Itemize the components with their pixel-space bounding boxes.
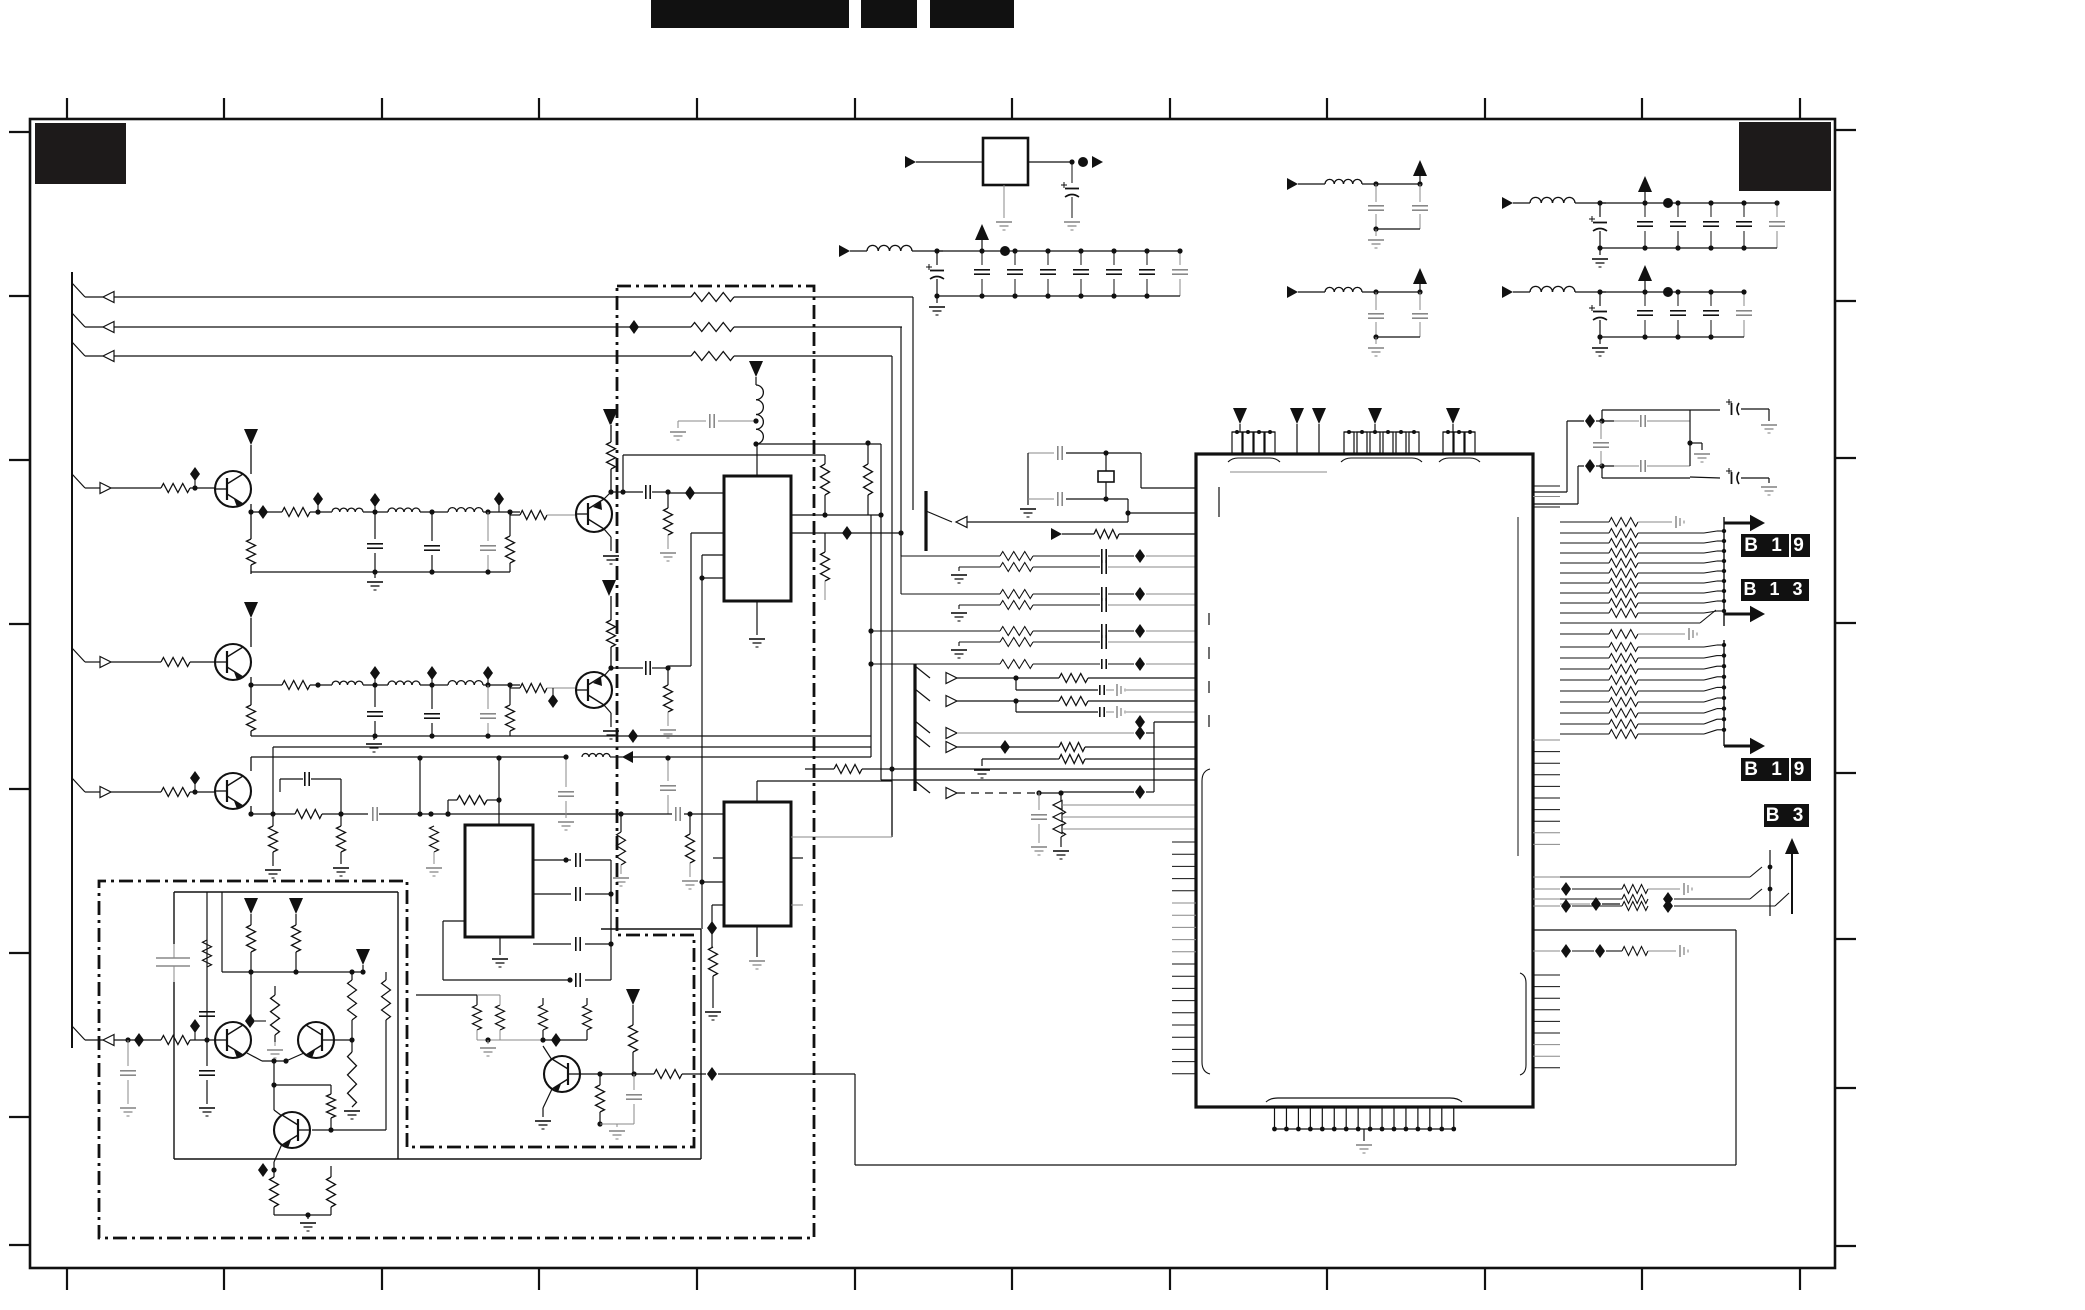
capacitor C1c to rail	[480, 509, 496, 572]
capacitor C2 out	[646, 485, 668, 499]
U1 right pins	[1533, 486, 1560, 1068]
resistor shunt stage3	[333, 811, 349, 876]
resistor base Q6	[161, 1036, 215, 1045]
diamond Q1 out	[258, 505, 268, 519]
U1 internal marks	[1202, 472, 1526, 1075]
resistor Q8 right	[327, 1130, 336, 1215]
capacitor IC2 input	[618, 807, 724, 821]
resistor divider pair A	[416, 995, 543, 1056]
bus wire B	[753, 441, 881, 780]
ground regulator	[996, 185, 1012, 230]
resistor to ground stage1 out	[660, 489, 676, 561]
LC filter B	[1287, 268, 1428, 356]
resistor Q8 feedback	[271, 1082, 335, 1132]
resistor series stage3	[295, 810, 368, 819]
grounded wire y759	[974, 759, 1056, 778]
op-amp IC0	[465, 825, 533, 937]
capacitor row 690	[1016, 678, 1196, 696]
output line G (row 2)	[72, 313, 691, 333]
redacted block top-right	[1739, 122, 1831, 191]
supply Q4	[602, 580, 616, 620]
svg-text:B 1: B 1	[1744, 535, 1786, 556]
stub IC2 right 2	[791, 904, 803, 906]
supply to coil IC1	[749, 361, 763, 385]
diamond node Q1 base	[190, 467, 200, 491]
wire y972	[222, 969, 366, 974]
wire pair B top	[543, 998, 587, 1005]
ground Q2 collector	[603, 529, 619, 564]
inner box right edge	[601, 929, 701, 1159]
wire row y899	[1533, 887, 1772, 906]
inductor L1a	[332, 508, 388, 512]
signal pair row 556	[901, 549, 1196, 583]
U1 left pins	[1172, 842, 1196, 1074]
capacitor feedback stage3	[280, 772, 341, 814]
wire row792 join	[1061, 785, 1154, 799]
resistor vert above out1	[821, 455, 830, 515]
regulator output	[1028, 156, 1103, 168]
signal row 664	[868, 628, 1196, 671]
resistor R-line row1	[691, 293, 913, 302]
resistor to Q2 base	[510, 511, 576, 520]
input bus wire	[71, 272, 73, 1048]
sync IC2	[724, 802, 791, 926]
resistor divider pair B	[539, 1005, 592, 1047]
input arrow stage 4	[72, 1026, 161, 1046]
U1 bottom pins + ground	[1266, 1098, 1462, 1153]
ground between Q6-Q7	[267, 1042, 283, 1058]
resistor Q4 emitter	[607, 620, 616, 668]
resistor bundle 2	[1560, 628, 1726, 746]
resistor Q9 load	[596, 1074, 605, 1127]
resistor below supply 2	[292, 925, 301, 972]
IC1 output row 2	[791, 526, 902, 540]
Q5 collector wire	[251, 757, 566, 771]
transistor Q6	[215, 1022, 251, 1058]
filled left arrow mid	[622, 751, 871, 763]
capacitor C2b to rail	[424, 666, 440, 736]
wire tap x420	[417, 755, 422, 816]
capacitor row 712	[1016, 701, 1196, 718]
supply to Q3 collector	[244, 602, 258, 647]
crystal X1 network	[1020, 446, 1141, 517]
wire loop below IC0	[443, 921, 570, 980]
resistor between Q6-Q7	[245, 986, 280, 1042]
ground IC2	[749, 926, 765, 969]
transistor Q7	[298, 1022, 334, 1058]
transistor Q5	[215, 773, 251, 809]
routed wire W to big IC	[855, 930, 1736, 1165]
resistor bundle 1	[1560, 516, 1726, 623]
inner box bottom edge	[174, 1158, 701, 1160]
svg-text:9: 9	[1793, 535, 1808, 556]
dash-dot shield boundary polygon	[99, 286, 814, 1238]
Q5 emitter node	[248, 806, 295, 817]
cap block right of U1 top	[1533, 410, 1710, 504]
connector label B19	[1741, 534, 1810, 557]
resistor above Q9 out	[629, 1025, 638, 1074]
bus wire D	[898, 327, 903, 556]
electrolytic cap A + ground	[1690, 399, 1777, 433]
ground stage1	[367, 582, 383, 590]
connector label B13	[1741, 579, 1809, 601]
resistor R-line row2	[629, 320, 902, 334]
resistor vert x868	[864, 440, 873, 515]
open arrow pin row 817	[1053, 813, 1196, 822]
signal pair row 631	[871, 624, 1196, 658]
wire into IC2 pin2	[699, 879, 724, 884]
wire IC2 pin4 down	[707, 905, 724, 947]
input arrow stage 2	[72, 648, 161, 668]
wire row y877	[1533, 865, 1772, 877]
resistor pin row 747	[1059, 743, 1196, 752]
page border frame	[30, 119, 1835, 1268]
vertical join x1154 + row 722	[1134, 715, 1196, 792]
wire vert x222	[221, 892, 223, 972]
supply above Q9	[626, 989, 640, 1025]
resistor base Q3	[161, 658, 215, 667]
Q3 emitter node	[248, 677, 253, 688]
resistor R-line row3	[691, 352, 892, 361]
bundle 2 output arrow	[1724, 738, 1765, 755]
capacitor on x207	[199, 1007, 215, 1016]
ground IC0	[492, 937, 508, 967]
capacitor at input4	[120, 1040, 136, 1116]
wire cap bus x611	[610, 860, 612, 980]
wire vert x207	[206, 892, 208, 1040]
bus wire C	[889, 356, 894, 835]
supply right in box	[356, 949, 370, 972]
wire row y955 with resistor	[1533, 944, 1688, 958]
wire stage2 out to IC1	[668, 533, 724, 666]
emitter join Q6-Q7	[247, 1053, 304, 1064]
capacitor IC0 r3	[533, 937, 614, 951]
svg-text:B 1 3: B 1 3	[1743, 579, 1806, 599]
wire X1 to IC pin	[1141, 453, 1196, 488]
bus bar node	[924, 491, 927, 551]
open left arrow into bar	[926, 511, 1128, 528]
bundle 1 output arrow	[1724, 515, 1765, 532]
capacitor Q9 out	[600, 1074, 642, 1139]
LC filter A	[1287, 160, 1428, 248]
bus D extension	[900, 556, 902, 594]
resistor pin row 769	[805, 765, 1196, 774]
main supply capacitor bank	[839, 224, 1188, 315]
stub IC2 right nc	[791, 857, 803, 859]
supply arrow B3	[1785, 838, 1799, 914]
ground stage2	[366, 744, 382, 752]
capacitor on left edge	[156, 944, 190, 982]
U1 right pin diamond A	[1560, 897, 1620, 911]
inductor L1b	[388, 508, 448, 512]
Q2 emitter node	[604, 489, 643, 499]
wire Q9 to route	[707, 1067, 855, 1081]
ground Q4 collector	[603, 705, 619, 739]
resistor series stage1	[251, 492, 332, 517]
resistor top of IC0	[445, 796, 501, 826]
inductor IC1 supply	[756, 385, 763, 444]
wire feedback y455	[623, 455, 825, 492]
supply marker left	[604, 409, 618, 425]
resistor series stage2	[251, 681, 332, 690]
input arrow stage 3	[72, 778, 161, 798]
U1 top pin group 3 + supply	[1439, 408, 1480, 462]
resistor on x207	[203, 940, 212, 967]
wire tap x499	[496, 755, 501, 803]
filled arrow input y534	[1051, 528, 1196, 540]
capacitor IC0 r4	[567, 973, 611, 987]
vertical node line B3	[1769, 850, 1771, 916]
crystal X1	[1098, 453, 1114, 499]
diamond input4	[134, 1033, 144, 1047]
capacitor C1a to rail	[367, 493, 383, 572]
resistor Q2 emitter	[607, 442, 616, 492]
capacitor bank right A	[1502, 176, 1785, 267]
supply Q2	[603, 409, 617, 442]
bar tap arrow 5 dashed	[915, 781, 1064, 799]
supply lower-left 2	[289, 898, 303, 925]
input arrow stage 1	[72, 474, 161, 494]
resistor Q7 base gnd	[334, 1037, 360, 1119]
supply lower-left 1	[244, 898, 258, 925]
resistor Q3 emitter to rail	[247, 685, 256, 736]
open arrow pin row 829	[1053, 825, 1196, 834]
wire row y906	[1533, 893, 1789, 913]
transistor Q3	[215, 644, 251, 680]
bar tap arrow 4	[915, 735, 1059, 754]
wire IC1 aux pins down	[699, 555, 724, 929]
wire row y894 with resistor	[1533, 882, 1692, 896]
transistor Q8	[274, 1112, 310, 1148]
wire stage1 out to IC1	[668, 486, 724, 500]
capacitor/ground at coil	[670, 414, 759, 440]
diamond Q6 base	[190, 1019, 210, 1043]
resistor pin row 759	[1056, 755, 1196, 764]
capacitor IC0 r2	[533, 887, 614, 901]
capacitor C2c to rail	[480, 666, 496, 736]
resistor to Q4 base	[510, 684, 576, 709]
capacitor C4 out	[646, 661, 668, 675]
connector label B3	[1764, 804, 1809, 827]
diamond node stage1 chain	[494, 492, 504, 512]
inductor L2b	[388, 681, 448, 685]
resistor at shield edge	[613, 814, 629, 886]
capacitor X1 lower	[1028, 492, 1196, 516]
bus wire A	[870, 515, 872, 757]
ground IC1	[749, 601, 765, 647]
output line R (to connector, row 1)	[72, 283, 691, 303]
feedback loop IC2	[757, 781, 892, 837]
transistor Q4 (buffer G)	[576, 672, 612, 708]
redacted block top-left	[35, 123, 126, 184]
resistor shunt stage1	[506, 509, 515, 572]
capacitor C5 coupling	[373, 807, 672, 821]
microcontroller U1 body	[1196, 454, 1533, 1107]
capacitor C2a to rail	[367, 666, 383, 736]
capacitor regulator out	[1061, 162, 1080, 230]
resistor Q1 emitter to rail	[247, 512, 256, 574]
resistor pair right	[348, 972, 391, 1130]
resistor Q5 emitter gnd	[265, 811, 281, 878]
U1 top pin group 1 + supply	[1228, 408, 1280, 462]
capacitor bank right B	[1502, 265, 1752, 356]
resistor row 678	[1059, 674, 1196, 683]
Q8 emitter resistor network	[258, 1144, 282, 1215]
output line B (row 3)	[72, 342, 691, 362]
capacitor bank right of IC0	[533, 853, 611, 867]
wire Q8 collector in	[274, 1061, 282, 1116]
wire Q8 base out	[312, 1129, 386, 1131]
transistor Q2 (buffer R)	[576, 496, 612, 532]
inductor mid	[582, 754, 624, 758]
capacitor Q6 base gnd	[199, 1040, 215, 1116]
regulator input arrow	[905, 156, 983, 168]
U1 top pin group 2 + supply	[1341, 408, 1422, 462]
ground rail Q8	[274, 1212, 331, 1231]
stage1 ground rail	[251, 569, 510, 578]
resistor row 701	[1059, 697, 1196, 706]
bundle 1 lower arrow	[1724, 606, 1765, 626]
U1 top single pin A + supply	[1290, 408, 1304, 454]
capacitor column x668	[660, 755, 676, 814]
capacitor C1b to rail	[424, 509, 440, 572]
bar tap arrow 3	[915, 721, 1154, 740]
diamond node Q5 base	[190, 771, 200, 795]
Q4 emitter node	[604, 665, 643, 676]
video amp IC1	[724, 476, 791, 601]
Q1 emitter node	[248, 504, 253, 515]
signal pair row 594	[901, 587, 1196, 621]
redacted title bar 2	[861, 0, 917, 28]
capacitor on dashed line	[1031, 792, 1047, 855]
ground Q9 emitter	[535, 1089, 552, 1129]
connector bus bar	[913, 664, 916, 791]
IC1 output row 1	[791, 512, 884, 517]
wire pin row 780	[881, 779, 1196, 781]
capacitor at coil input	[558, 754, 574, 830]
svg-text:9: 9	[1794, 759, 1809, 780]
bar tap arrow 2	[915, 689, 1059, 707]
open arrow pin row 805	[1053, 801, 1196, 810]
resistor below IC2	[705, 947, 721, 1020]
stage2 ground rail	[251, 729, 871, 743]
voltage regulator U2	[983, 138, 1028, 185]
stub IC2 nc pin	[713, 857, 724, 859]
redacted title bar 3	[930, 0, 1014, 28]
resistor to ground stage2 out	[660, 665, 676, 738]
inductor L2c	[448, 681, 520, 685]
resistor shunt at IC0 input	[426, 814, 442, 876]
resistor base Q1	[161, 484, 215, 493]
resistor below supply 1	[247, 925, 256, 1022]
supply to Q1 collector	[244, 429, 258, 474]
Q9 output row	[580, 1071, 654, 1076]
resistor Q9 series	[654, 1070, 706, 1079]
bus wire E	[912, 297, 914, 510]
resistor row792 gnd	[1053, 792, 1069, 859]
transistor Q1	[215, 471, 251, 507]
wire IC1 top pin	[756, 444, 758, 476]
U1 top single pin B + supply	[1312, 408, 1326, 454]
electrolytic cap B + ground	[1690, 468, 1777, 495]
inner box divider	[397, 892, 399, 1159]
inductor L1c	[448, 508, 520, 512]
bar tap arrow 1	[915, 666, 1059, 684]
inner box top edge	[174, 891, 398, 893]
connector label B19 lower	[1741, 758, 1811, 781]
inner box left edge	[173, 892, 175, 1159]
wire y747	[273, 747, 871, 814]
inductor L2a	[332, 681, 388, 685]
resistor shunt stage2	[506, 682, 515, 736]
node wire y814	[428, 811, 450, 816]
svg-text:B 1: B 1	[1744, 759, 1786, 780]
resistor vert below out2	[821, 533, 830, 600]
svg-text:B 3: B 3	[1766, 805, 1808, 826]
transistor Q9	[543, 1046, 580, 1092]
resistor base Q5	[161, 788, 215, 797]
redacted title bar 1	[651, 0, 849, 28]
resistor IC2 input gnd	[682, 814, 698, 889]
